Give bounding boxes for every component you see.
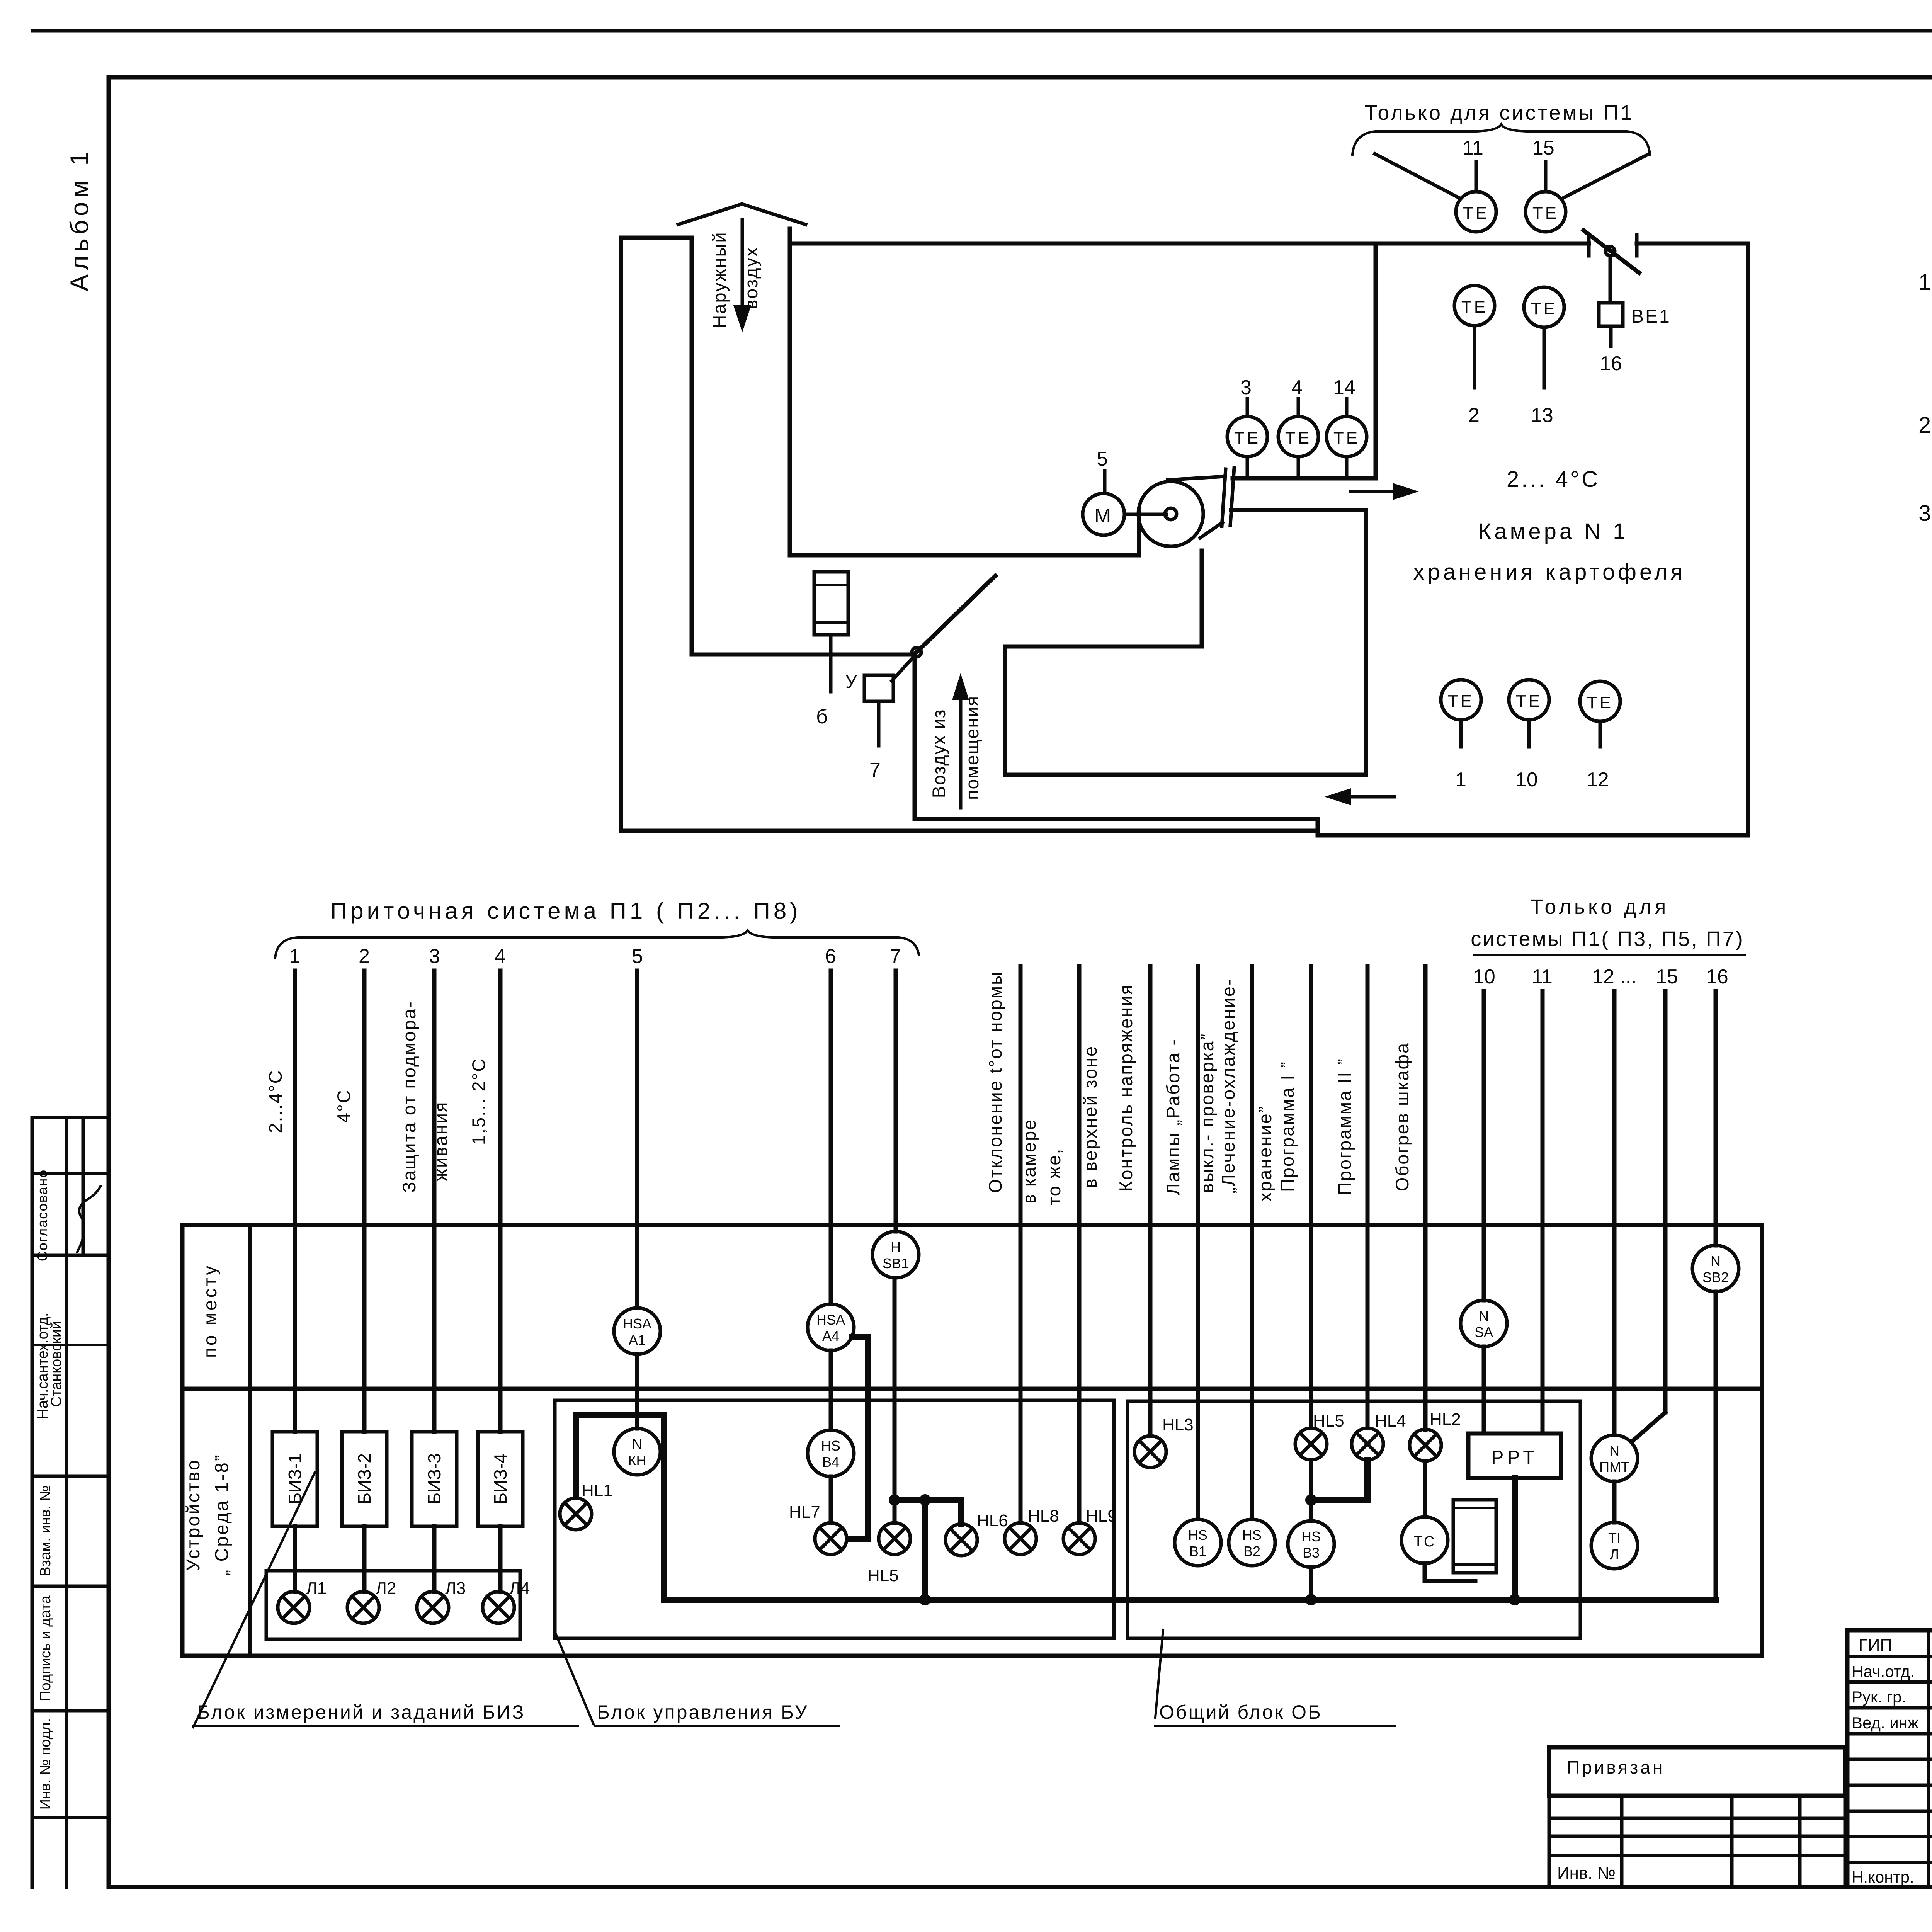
svg-text:У: У: [845, 672, 857, 692]
svg-text:Л1: Л1: [306, 1579, 327, 1598]
signal line lamps work-off-check: [1196, 966, 1200, 1519]
svg-text:то же,: то же,: [1044, 1148, 1064, 1206]
damper end tick left: [1587, 235, 1591, 256]
lamp HL9: [1063, 1523, 1095, 1554]
svg-text:Программа II ”: Программа II ”: [1334, 1058, 1355, 1195]
svg-text:6: 6: [825, 945, 836, 968]
svg-text:1: 1: [289, 945, 300, 968]
control block BU box: [555, 1400, 1114, 1638]
wire N SB2 to bus: [1714, 1292, 1718, 1600]
lamp HL6: [946, 1524, 977, 1556]
wire junction to HS B3: [1309, 1500, 1313, 1521]
svg-text:2: 2: [359, 945, 370, 968]
svg-text:Отклонение t°от нормы: Отклонение t°от нормы: [985, 971, 1005, 1193]
svg-text:15: 15: [1532, 137, 1554, 159]
svg-text:Л: Л: [1610, 1546, 1619, 1562]
switch HS B2: [1229, 1519, 1275, 1566]
fan impeller circle: [1138, 481, 1203, 546]
block BIZ-4: [478, 1432, 523, 1526]
inner partition bottom wire: [1005, 773, 1366, 777]
casing bottom wall: [621, 819, 1748, 835]
thermostat TC: [1401, 1517, 1448, 1563]
svg-text:Согласовано: Согласовано: [34, 1169, 50, 1261]
duct inner left wall: [690, 238, 694, 655]
chamber top wall left part: [790, 241, 1589, 246]
svg-text:SА: SА: [1475, 1324, 1493, 1340]
svg-text:Обогрев шкафа: Обогрев шкафа: [1392, 1042, 1412, 1191]
svg-text:ТЕ: ТЕ: [1333, 429, 1360, 447]
damper pivot: [1605, 247, 1615, 256]
meter TI L: [1591, 1522, 1638, 1569]
svg-text:живания: живания: [430, 1101, 451, 1181]
svg-text:НL6: НL6: [977, 1511, 1008, 1530]
junction dot: [1305, 1594, 1317, 1605]
svg-text:7: 7: [869, 759, 881, 781]
signal line treatment-cooling-storage: [1250, 966, 1254, 1519]
duct top cap wire: [621, 236, 692, 240]
privyazan grid: [1549, 1796, 1845, 1887]
lamp HL5 left: [879, 1523, 910, 1554]
svg-text:выкл.- проверка”: выкл.- проверка”: [1197, 1033, 1217, 1193]
temperature sensor TE 12: [1580, 681, 1620, 721]
supply air flow arrow: [1350, 490, 1399, 493]
svg-text:Общий блок ОБ: Общий блок ОБ: [1159, 1701, 1322, 1723]
privyazan box: [1549, 1747, 1845, 1796]
position sensor BE1: [1599, 303, 1623, 326]
motor shaft: [1124, 513, 1166, 516]
inner partition left wall: [1003, 646, 1007, 775]
svg-text:13: 13: [1531, 404, 1553, 427]
svg-text:Вед. инж: Вед. инж: [1852, 1714, 1918, 1732]
svg-text:ТЕ: ТЕ: [1531, 299, 1557, 318]
wire PPT to bus: [1512, 1478, 1518, 1600]
signal line upper zone: [1077, 966, 1082, 1430]
thick wire HL4 to junction: [1311, 1460, 1367, 1500]
svg-text:ТI: ТI: [1608, 1530, 1621, 1546]
temperature sensor TE 3: [1227, 417, 1267, 457]
svg-text:НSА: НSА: [816, 1312, 845, 1328]
room air arrow: [959, 696, 963, 808]
leader BU label: [556, 1634, 594, 1724]
svg-text:НS: НS: [821, 1438, 840, 1454]
temperature sensor TE 15: [1526, 192, 1566, 232]
intake duct riser to fan: [1137, 509, 1141, 555]
thick wire to bus: [922, 1500, 928, 1600]
svg-text:N: N: [1609, 1443, 1619, 1459]
svg-text:Контроль напряжения: Контроль напряжения: [1116, 984, 1136, 1192]
lamp panel box: [266, 1571, 520, 1639]
svg-text:Н.контр.: Н.контр.: [1852, 1868, 1914, 1886]
temperature sensor TE 4: [1278, 417, 1318, 457]
lamp HL2: [1410, 1429, 1441, 1461]
lamp HL3: [1134, 1436, 1166, 1468]
wire NSA A4 to NS B4: [829, 1350, 833, 1430]
thick bypass wire NSA A4 to HL7: [848, 1337, 868, 1539]
lamp HL7: [815, 1523, 847, 1554]
signal line cabinet heating: [1423, 966, 1428, 1430]
wire filter lead: [829, 635, 833, 692]
supply duct bottom wire: [1231, 508, 1366, 512]
wire label 5 lead: [1103, 471, 1107, 493]
svg-text:Н: Н: [891, 1239, 901, 1255]
svg-text:БИЗ-1: БИЗ-1: [285, 1453, 305, 1504]
wire NSA A1 to NKH: [635, 1354, 639, 1429]
header brace: [275, 930, 919, 958]
fan hub: [1165, 508, 1177, 520]
svg-text:БИЗ-3: БИЗ-3: [424, 1453, 444, 1504]
temperature sensor TE 14: [1327, 417, 1367, 457]
temperature sensor TE 10: [1509, 680, 1549, 720]
chamber top wall right part: [1637, 241, 1748, 246]
wire NS B4 to HL7: [829, 1476, 833, 1523]
svg-text:А1: А1: [629, 1332, 646, 1348]
button N SB1: [872, 1231, 919, 1278]
svg-text:НL4: НL4: [1375, 1412, 1406, 1430]
svg-text:М: М: [1094, 505, 1111, 527]
svg-text:3: 3: [429, 945, 440, 968]
svg-text:ТЕ: ТЕ: [1448, 692, 1474, 711]
svg-text:12: 12: [1587, 769, 1609, 791]
svg-text:2: 2: [1468, 404, 1480, 427]
svg-text:Подпись и дата: Подпись и дата: [37, 1595, 54, 1701]
intake duct bottom wire: [790, 553, 1139, 558]
svg-text:16: 16: [1600, 352, 1622, 375]
svg-text:НL5: НL5: [1313, 1412, 1344, 1430]
svg-text:Наружный: Наружный: [709, 231, 730, 328]
svg-text:2. Схема приведена для при: 2. Схема приведена для приточной системы…: [1918, 413, 1932, 438]
block BIZ-3: [412, 1432, 457, 1526]
svg-text:А4: А4: [822, 1328, 839, 1344]
svg-text:Защита от подмора-: Защита от подмора-: [399, 1000, 419, 1193]
temperature sensor TE 1: [1441, 680, 1481, 720]
svg-text:1. Схема выполнена на осно: 1. Схема выполнена на основании техничес…: [1918, 270, 1932, 295]
svg-text:5: 5: [1097, 448, 1108, 470]
wire to HL9: [1077, 1430, 1082, 1523]
svg-text:НL1: НL1: [582, 1481, 613, 1500]
lamp L2: [347, 1592, 379, 1623]
leader to TE 15: [1563, 154, 1649, 198]
svg-text:ГИП: ГИП: [1859, 1636, 1892, 1655]
svg-text:в камере: в камере: [1019, 1119, 1039, 1204]
duct outer left wall: [619, 238, 623, 831]
svg-text:РРТ: РРТ: [1491, 1447, 1538, 1468]
svg-text:НL5: НL5: [867, 1566, 899, 1585]
svg-text:Привязан: Привязан: [1567, 1757, 1665, 1777]
svg-text:В2: В2: [1243, 1543, 1260, 1559]
svg-text:хранения картофеля: хранения картофеля: [1413, 560, 1685, 585]
svg-text:В4: В4: [822, 1454, 839, 1470]
svg-text:БИЗ-4: БИЗ-4: [490, 1453, 510, 1504]
switch HS B1: [1175, 1519, 1221, 1566]
leader to TE 11: [1375, 154, 1459, 198]
svg-text:1,5... 2°С: 1,5... 2°С: [468, 1058, 489, 1145]
panel label column divider: [248, 1225, 252, 1656]
outside air arrow: [741, 219, 744, 309]
svg-text:Приточная система П1 ( П2...: Приточная система П1 ( П2... П8): [330, 898, 801, 924]
lamp HL1: [560, 1498, 592, 1530]
svg-text:Рук. гр.: Рук. гр.: [1852, 1688, 1906, 1706]
svg-text:Инв. № подл.: Инв. № подл.: [37, 1718, 54, 1810]
recirculation damper pivot node: [912, 648, 921, 657]
wire HL5 to junction: [1309, 1460, 1313, 1500]
recirculation damper blade: [917, 576, 995, 652]
svg-text:10: 10: [1515, 769, 1538, 791]
svg-text:14: 14: [1333, 376, 1355, 399]
svg-text:Станковский: Станковский: [48, 1321, 65, 1407]
wire to HL8: [1019, 1430, 1023, 1523]
junction dot: [919, 1594, 931, 1605]
intake channel right wall: [788, 229, 792, 555]
damper end tick right: [1635, 235, 1639, 256]
svg-text:ТЕ: ТЕ: [1587, 693, 1613, 712]
svg-text:в верхней зоне: в верхней зоне: [1080, 1045, 1100, 1188]
svg-text:Только для системы П1: Только для системы П1: [1365, 101, 1634, 124]
damper blade: [1583, 230, 1639, 273]
svg-text:4°С: 4°С: [333, 1089, 354, 1123]
button N KH: [614, 1429, 660, 1475]
wire to HL3: [1148, 1430, 1153, 1436]
recirculation duct bottom wire: [915, 817, 1318, 821]
svg-text:Блок измерений и заданий БИЗ: Блок измерений и заданий БИЗ: [197, 1701, 525, 1723]
switch NSA A1: [614, 1308, 660, 1354]
meter N PMT: [1591, 1435, 1638, 1481]
motor M circle: [1083, 493, 1124, 535]
svg-text:БИЗ-2: БИЗ-2: [354, 1453, 374, 1504]
svg-text:„Лечение-охлаждение-: „Лечение-охлаждение-: [1218, 978, 1238, 1193]
svg-text:Лампы „Работа -: Лампы „Работа -: [1163, 1038, 1183, 1195]
panel row divider: [182, 1387, 1762, 1391]
supply duct top wire: [1233, 476, 1376, 481]
svg-text:хранение”: хранение”: [1255, 1105, 1275, 1202]
svg-text:15: 15: [1656, 966, 1678, 988]
block BIZ-1: [272, 1432, 317, 1526]
lamp L1: [278, 1592, 310, 1623]
svg-text:Программа I ”: Программа I ”: [1277, 1061, 1298, 1192]
lamp L4: [483, 1592, 514, 1623]
lamp L3: [417, 1592, 449, 1623]
svg-text:12 ...: 12 ...: [1592, 966, 1637, 988]
junction dot: [919, 1494, 931, 1506]
button N SB2: [1692, 1245, 1739, 1292]
svg-text:3: 3: [1240, 376, 1252, 399]
wire N SB1 to HL5: [893, 1278, 897, 1523]
svg-text:SВ1: SВ1: [883, 1255, 909, 1271]
svg-text:11: 11: [1532, 966, 1553, 988]
svg-text:N: N: [1479, 1308, 1489, 1324]
chamber right wall: [1746, 243, 1750, 835]
leader OB label: [1155, 1630, 1163, 1718]
svg-text:Л3: Л3: [445, 1579, 466, 1598]
fan casing outlet line: [1200, 522, 1223, 538]
title block signatures table: [1847, 1630, 1932, 1887]
svg-text:4: 4: [495, 945, 506, 968]
svg-text:В3: В3: [1303, 1545, 1320, 1561]
block BIZ-2: [342, 1432, 387, 1526]
svg-text:НL7: НL7: [789, 1503, 820, 1522]
lamp HL5 right: [1295, 1428, 1327, 1460]
wire HS B3 to bus: [1309, 1567, 1313, 1600]
label underline: [1474, 954, 1745, 956]
thick wire HL1 loop: [576, 1415, 664, 1600]
svg-text:BE1: BE1: [1631, 306, 1671, 327]
svg-text:4: 4: [1291, 376, 1303, 399]
temperature sensor TE 11: [1456, 192, 1496, 232]
svg-text:НL9: НL9: [1086, 1507, 1117, 1526]
svg-text:ТЕ: ТЕ: [1516, 692, 1542, 711]
wire TC to relay: [1425, 1563, 1475, 1581]
svg-text:2...4°С: 2...4°С: [265, 1069, 286, 1133]
left stamp table grid: [31, 1117, 34, 1887]
svg-text:10: 10: [1473, 966, 1495, 988]
svg-text:SВ2: SВ2: [1702, 1269, 1729, 1285]
signal line program I: [1309, 966, 1313, 1428]
svg-text:НS: НS: [1301, 1529, 1321, 1544]
lamp HL4: [1352, 1428, 1383, 1460]
svg-text:НS: НS: [1188, 1527, 1207, 1543]
svg-text:В1: В1: [1189, 1543, 1206, 1559]
signal line voltage control: [1148, 966, 1153, 1430]
svg-text:ТЕ: ТЕ: [1234, 429, 1260, 447]
svg-text:ТЕ: ТЕ: [1463, 204, 1489, 223]
svg-text:Камера N 1: Камера N 1: [1478, 519, 1628, 544]
signal line t deviation: [1019, 966, 1023, 1430]
wires BIZ to lamps: [293, 1526, 297, 1592]
stamp signature squiggle: [77, 1186, 100, 1252]
svg-text:„ Среда 1-8”: „ Среда 1-8”: [212, 1453, 232, 1576]
brace under label: [1352, 124, 1650, 155]
svg-text:Воздух из: Воздух из: [929, 709, 949, 798]
actuator U box: [864, 675, 893, 701]
svg-text:НL8: НL8: [1028, 1507, 1059, 1526]
svg-text:НS: НS: [1242, 1527, 1262, 1543]
svg-text:N: N: [632, 1436, 642, 1452]
svg-text:ТЕ: ТЕ: [1532, 204, 1559, 223]
wire damper to BE1: [1609, 256, 1612, 303]
supply duct return riser: [1364, 510, 1368, 775]
svg-text:Взам. инв. №: Взам. инв. №: [37, 1485, 54, 1576]
svg-text:б: б: [816, 706, 828, 728]
controller PPT box: [1468, 1434, 1561, 1478]
svg-text:ПМТ: ПМТ: [1599, 1459, 1629, 1475]
svg-text:помещения: помещения: [962, 696, 982, 800]
wire BE1 stub: [1609, 326, 1613, 346]
svg-text:N: N: [1711, 1253, 1721, 1269]
wire actuator lead: [877, 701, 881, 746]
svg-text:ТС: ТС: [1414, 1534, 1436, 1550]
panel outer box: [182, 1225, 1762, 1656]
svg-text:Блок управления БУ: Блок управления БУ: [597, 1701, 809, 1723]
intake hood roof: [678, 204, 806, 224]
svg-text:16: 16: [1706, 966, 1728, 988]
lamp HL8: [1005, 1523, 1036, 1554]
power bus wire: [664, 1597, 1716, 1603]
svg-text:Только для: Только для: [1531, 895, 1669, 918]
switch NSA A4: [808, 1304, 854, 1350]
svg-text:ТЕ: ТЕ: [1461, 298, 1488, 316]
signal line program II: [1366, 966, 1370, 1428]
relay block: [1453, 1500, 1496, 1573]
junction dot: [1305, 1494, 1317, 1506]
switch N SA: [1461, 1300, 1507, 1347]
svg-text:системы П1( П3, П5, П7): системы П1( П3, П5, П7): [1471, 927, 1744, 951]
temperature sensor TE 13: [1524, 287, 1564, 327]
junction dot: [1509, 1594, 1520, 1605]
inner partition top wire: [1005, 645, 1202, 649]
svg-text:1: 1: [1455, 769, 1466, 791]
thick wire HL5 to HL6: [895, 1500, 961, 1524]
svg-text:воздух: воздух: [741, 247, 761, 310]
wire HL2 to TC: [1423, 1461, 1427, 1517]
chamber partition wall: [1374, 243, 1378, 478]
svg-text:Нач.отд.: Нач.отд.: [1852, 1662, 1915, 1680]
wire PMT diagonal to line 15: [1631, 1412, 1665, 1442]
junction dot: [889, 1494, 900, 1506]
switch NS B4: [808, 1430, 854, 1476]
flexible joint lines: [1222, 469, 1226, 526]
svg-text:НL3: НL3: [1162, 1415, 1194, 1434]
fan casing top line: [1168, 476, 1225, 480]
mixing box floor wire: [692, 653, 915, 657]
filter block: [814, 572, 848, 635]
svg-text:НSА: НSА: [623, 1316, 651, 1332]
svg-text:2... 4°С: 2... 4°С: [1507, 467, 1600, 492]
switch HS B3: [1288, 1521, 1334, 1567]
svg-text:Инв. №: Инв. №: [1557, 1864, 1616, 1883]
svg-text:НL2: НL2: [1430, 1410, 1461, 1429]
leader BIZ label: [193, 1472, 315, 1727]
svg-text:Альбом 1: Альбом 1: [65, 148, 94, 291]
svg-text:7: 7: [890, 945, 901, 968]
actuator U link wire: [892, 656, 914, 681]
svg-text:ТЕ: ТЕ: [1285, 429, 1311, 447]
svg-text:КН: КН: [628, 1452, 646, 1468]
common block OB box: [1128, 1401, 1580, 1638]
svg-text:Устройство: Устройство: [183, 1458, 204, 1571]
svg-text:3. Системы П1; П2 поддержив: 3. Системы П1; П2 поддерживают температу…: [1918, 501, 1932, 526]
wire N SA to PPT: [1482, 1347, 1486, 1434]
inner partition riser to fan: [1200, 551, 1204, 646]
svg-text:по месту: по месту: [200, 1264, 221, 1358]
extract air flow arrow: [1345, 795, 1395, 799]
svg-text:5: 5: [632, 945, 643, 968]
recirculation duct left wall: [913, 657, 917, 819]
svg-text:Л4: Л4: [509, 1579, 530, 1598]
svg-text:11: 11: [1463, 137, 1483, 159]
svg-text:Л2: Л2: [376, 1579, 396, 1598]
temperature sensor TE 2: [1454, 286, 1495, 326]
wire PMT to TI: [1612, 1481, 1617, 1522]
